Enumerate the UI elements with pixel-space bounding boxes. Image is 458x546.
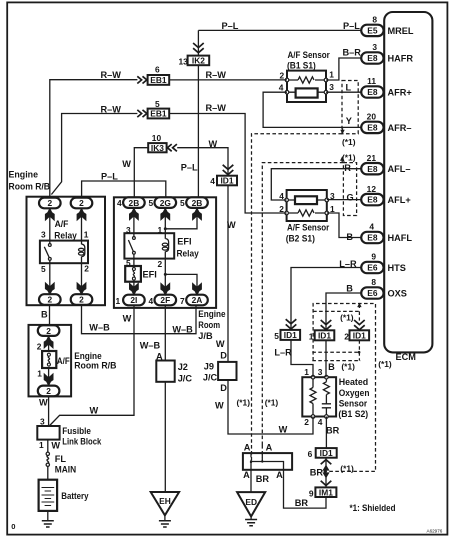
svg-text:5: 5 [274,331,279,341]
svg-text:2: 2 [280,71,285,81]
svg-text:W: W [90,405,99,415]
svg-text:(*1): (*1) [342,152,356,162]
svg-text:2G: 2G [160,198,171,208]
svg-text:ID1: ID1 [220,176,233,186]
svg-text:(B1 S2): (B1 S2) [338,409,368,419]
svg-text:Relay: Relay [54,231,77,241]
svg-text:A: A [276,470,283,480]
svg-text:11: 11 [367,76,376,86]
svg-text:AFL+: AFL+ [388,195,411,205]
svg-text:3: 3 [41,230,46,240]
svg-text:9: 9 [309,489,314,499]
svg-text:IK3: IK3 [151,143,164,153]
svg-text:A/F Sensor: A/F Sensor [288,50,331,60]
svg-text:MAIN: MAIN [55,465,77,475]
svg-text:EB1: EB1 [150,109,167,119]
svg-text:2: 2 [304,417,309,427]
svg-text:R–W: R–W [206,70,227,80]
svg-text:A/F Sensor: A/F Sensor [287,222,330,232]
svg-text:(*1): (*1) [265,397,279,407]
svg-text:5: 5 [41,264,46,274]
svg-text:3: 3 [318,367,323,377]
svg-text:2: 2 [84,264,89,274]
svg-text:P–L: P–L [343,21,360,31]
svg-text:W: W [279,424,288,434]
svg-text:ID1: ID1 [318,331,331,341]
svg-text:B: B [41,309,48,319]
svg-text:A: A [243,470,250,480]
svg-text:E6: E6 [367,288,378,298]
svg-text:8: 8 [372,15,377,25]
svg-text:3: 3 [40,417,45,427]
svg-text:A: A [266,443,273,453]
svg-text:E8: E8 [367,233,378,243]
svg-text:2A: 2A [192,295,203,305]
svg-text:Room R/B: Room R/B [9,181,51,191]
svg-text:9: 9 [371,252,376,262]
svg-text:4: 4 [279,82,284,92]
svg-text:J/C: J/C [203,372,218,382]
svg-text:AFR–: AFR– [388,123,412,133]
svg-text:6: 6 [155,65,160,75]
svg-text:2B: 2B [192,198,203,208]
svg-text:2F: 2F [160,295,170,305]
svg-text:Y: Y [346,116,352,126]
svg-text:L: L [346,82,352,92]
svg-text:3: 3 [126,225,131,235]
svg-text:A/F: A/F [57,356,70,366]
svg-text:BR: BR [310,468,324,478]
svg-text:1: 1 [116,296,121,306]
svg-text:Fusible: Fusible [62,426,91,436]
svg-text:2: 2 [279,204,284,214]
svg-text:R–W: R–W [206,103,227,113]
svg-text:5: 5 [149,198,154,208]
svg-text:P–L: P–L [222,21,239,31]
svg-text:E8: E8 [367,53,378,63]
svg-text:3: 3 [329,82,334,92]
svg-text:R–W: R–W [101,70,122,80]
svg-text:2: 2 [47,198,52,208]
svg-text:1: 1 [309,331,314,341]
svg-text:Sensor: Sensor [339,399,368,409]
svg-text:(B2 S1): (B2 S1) [286,234,315,244]
svg-text:EFI: EFI [143,269,157,279]
svg-text:P–L: P–L [181,162,198,172]
svg-text:W–B: W–B [172,324,193,334]
svg-text:8: 8 [371,277,376,287]
svg-text:Heated: Heated [339,377,369,387]
svg-text:(*1): (*1) [340,463,354,473]
svg-text:BR: BR [295,498,309,508]
svg-text:2B: 2B [129,198,140,208]
svg-text:W–B: W–B [140,341,161,351]
svg-text:W: W [51,441,60,451]
svg-text:HAFL: HAFL [388,233,413,243]
svg-text:(*1): (*1) [342,137,356,147]
svg-text:ID1: ID1 [353,331,366,341]
svg-text:J/C: J/C [178,373,193,383]
svg-text:J9: J9 [204,361,214,371]
svg-text:W: W [122,159,131,169]
svg-text:12: 12 [367,184,377,194]
svg-text:Room: Room [198,320,220,330]
svg-text:R: R [344,163,351,173]
svg-text:G: G [347,192,354,202]
svg-text:4: 4 [318,417,323,427]
svg-text:1: 1 [330,204,335,214]
svg-text:HAFR: HAFR [388,53,414,63]
svg-text:Engine: Engine [74,351,102,361]
svg-text:2: 2 [46,386,51,396]
svg-text:BR: BR [326,425,340,435]
svg-text:W: W [216,339,225,349]
svg-text:ID1: ID1 [320,448,333,458]
svg-text:E6: E6 [367,263,378,273]
svg-text:ID1: ID1 [284,330,297,340]
svg-text:ED: ED [245,497,257,507]
svg-text:1: 1 [158,225,163,235]
svg-text:A: A [156,351,163,361]
svg-text:IM1: IM1 [319,487,333,497]
svg-text:2: 2 [158,259,163,269]
svg-text:13: 13 [179,57,189,67]
svg-text:5: 5 [180,198,185,208]
svg-text:Battery: Battery [61,491,89,501]
svg-text:E8: E8 [367,87,378,97]
svg-text:7: 7 [180,296,185,306]
svg-text:2: 2 [46,326,51,336]
svg-text:1: 1 [304,367,309,377]
svg-text:EFI: EFI [177,237,191,247]
svg-text:(B1 S1): (B1 S1) [287,60,316,70]
svg-text:6: 6 [308,449,313,459]
svg-text:AFL–: AFL– [388,164,411,174]
svg-text:(*1): (*1) [237,397,251,407]
svg-text:Link Block: Link Block [62,437,102,447]
svg-text:2: 2 [79,198,84,208]
svg-text:Engine: Engine [198,309,225,319]
svg-text:A/F: A/F [55,219,69,229]
svg-text:D: D [220,350,227,360]
svg-text:21: 21 [367,153,377,163]
svg-text:AFR+: AFR+ [388,87,412,97]
svg-text:B: B [346,232,353,242]
svg-text:1: 1 [329,69,334,79]
svg-text:20: 20 [367,112,377,122]
svg-text:P–L: P–L [101,171,118,181]
svg-text:4: 4 [279,191,284,201]
svg-text:1: 1 [84,230,89,240]
svg-text:0: 0 [11,522,15,531]
svg-text:B: B [328,362,335,372]
svg-text:A62976: A62976 [427,528,443,533]
svg-text:1: 1 [37,369,42,379]
svg-text:4: 4 [149,296,154,306]
svg-text:EH: EH [159,496,171,506]
svg-text:E5: E5 [367,26,378,36]
svg-text:B–R: B–R [343,47,362,57]
svg-text:5: 5 [126,258,131,268]
svg-text:2: 2 [79,295,84,305]
svg-text:10: 10 [152,133,162,143]
svg-text:Room R/B: Room R/B [74,360,117,370]
svg-text:E8: E8 [367,123,378,133]
svg-text:HTS: HTS [388,263,406,273]
svg-text:MREL: MREL [388,26,414,36]
svg-text:1: 1 [39,440,44,450]
svg-text:R–W: R–W [101,104,122,114]
svg-text:OXS: OXS [388,288,407,298]
svg-text:W: W [39,397,48,407]
svg-text:D: D [220,383,227,393]
svg-text:*1: Shielded: *1: Shielded [350,503,396,513]
svg-text:4: 4 [210,176,215,186]
svg-text:ECM: ECM [396,352,417,362]
svg-text:Relay: Relay [177,248,200,258]
svg-text:W: W [227,220,236,230]
svg-text:2: 2 [37,341,42,351]
svg-text:2I: 2I [130,295,137,305]
svg-text:4: 4 [117,198,122,208]
svg-text:(*1): (*1) [341,361,355,371]
svg-text:L–R: L–R [274,347,292,357]
svg-text:W–B: W–B [89,322,110,332]
svg-text:EB1: EB1 [150,75,167,85]
svg-text:(*1): (*1) [378,359,392,369]
svg-text:(*1): (*1) [340,312,354,322]
svg-text:B: B [346,284,353,294]
svg-text:J2: J2 [178,362,188,372]
svg-text:4: 4 [369,222,374,232]
svg-text:E8: E8 [367,164,378,174]
svg-text:2: 2 [47,295,52,305]
svg-text:J/B: J/B [198,331,213,341]
svg-text:FL: FL [55,454,67,464]
svg-text:W: W [209,139,218,149]
svg-text:L–R: L–R [339,259,357,269]
svg-text:E8: E8 [367,195,378,205]
svg-text:A: A [244,443,251,453]
svg-text:Oxygen: Oxygen [339,388,370,398]
svg-text:Engine: Engine [9,169,39,179]
svg-text:W: W [123,313,132,323]
svg-text:3: 3 [372,42,377,52]
svg-text:W: W [215,400,224,410]
svg-text:3: 3 [330,191,335,201]
svg-text:5: 5 [155,99,160,109]
svg-text:BR: BR [256,474,270,484]
svg-text:2: 2 [344,331,349,341]
svg-text:IK2: IK2 [192,56,205,66]
